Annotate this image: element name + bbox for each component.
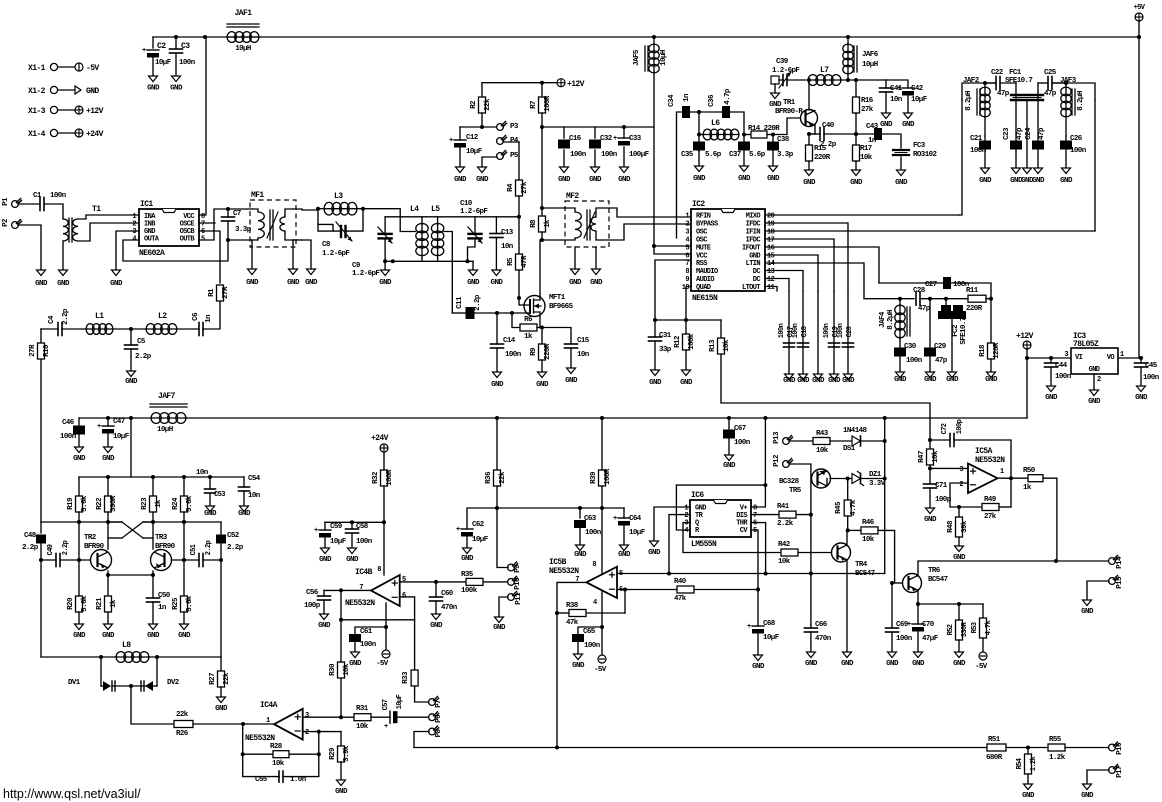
wire squelch col	[884, 418, 886, 574]
svg-text:47p: 47p	[935, 357, 948, 365]
pin P2	[12, 222, 19, 229]
svg-text:R23: R23	[141, 497, 149, 510]
wire C42 gnd	[907, 96, 909, 113]
wire L8 right	[148, 656, 221, 658]
wire L3 to tank	[363, 209, 416, 232]
svg-text:10µF: 10µF	[763, 634, 780, 642]
capacitor C20	[843, 342, 854, 344]
svg-text:100n: 100n	[1070, 147, 1087, 155]
svg-text:R8: R8	[530, 219, 538, 228]
wire minus node down	[414, 620, 416, 670]
svg-text:100n: 100n	[505, 351, 522, 359]
svg-text:39k: 39k	[961, 520, 969, 533]
svg-text:DV2: DV2	[167, 679, 180, 687]
ground IC3	[1090, 390, 1099, 396]
capacitor C6	[198, 323, 200, 336]
wire C55 loop	[243, 724, 279, 776]
svg-text:C28: C28	[913, 287, 926, 295]
wire C12 gnd	[459, 148, 461, 167]
wire R38 row	[557, 612, 569, 614]
capacitor C52	[216, 535, 226, 544]
svg-text:DZ1: DZ1	[869, 471, 882, 479]
capacitor C36	[722, 106, 730, 118]
node C47	[106, 416, 110, 420]
node V+ rail	[763, 416, 767, 420]
wire C60 gnd	[435, 601, 437, 614]
svg-text:3.3p: 3.3p	[777, 151, 794, 159]
capacitor C5	[130, 329, 132, 345]
svg-text:OSC: OSC	[696, 236, 707, 244]
svg-text:10k: 10k	[816, 447, 829, 455]
svg-text:GND: GND	[749, 252, 760, 260]
resistor R9	[541, 328, 543, 345]
svg-text:22k: 22k	[223, 672, 231, 685]
wire C62 gnd	[466, 537, 468, 548]
wire IC3 gnd	[1093, 374, 1095, 390]
node R24 fb	[182, 520, 186, 524]
wire pin16 c27 row	[879, 282, 943, 284]
svg-text:-5V: -5V	[594, 666, 607, 674]
pin P10	[508, 579, 515, 586]
svg-text:GND: GND	[349, 660, 362, 668]
svg-text:GND: GND	[1081, 792, 1094, 800]
wire R43-DS1	[830, 440, 852, 442]
node R28 right	[317, 752, 321, 756]
svg-text:8: 8	[592, 561, 596, 569]
svg-text:4: 4	[684, 527, 688, 535]
svg-text:R39: R39	[590, 471, 598, 484]
node R19 fb	[77, 520, 81, 524]
svg-text:P6: P6	[435, 714, 443, 723]
svg-text:1.2k: 1.2k	[1049, 754, 1066, 762]
ground C44	[1047, 386, 1056, 392]
wire P2 down	[18, 225, 41, 270]
svg-text:FC2: FC2	[952, 324, 960, 337]
svg-text:C56: C56	[306, 589, 319, 597]
wire +12V rail	[482, 82, 557, 84]
wire tank left down	[698, 112, 700, 152]
svg-text:27k: 27k	[861, 106, 874, 114]
svg-text:GND: GND	[461, 555, 474, 563]
ground C18	[799, 374, 808, 380]
node C56	[339, 588, 343, 592]
svg-text:14: 14	[767, 260, 775, 268]
wire R29 gnd	[340, 762, 342, 780]
svg-text:GND: GND	[379, 279, 392, 287]
power -5V IC5B	[601, 627, 603, 655]
IC IC6 LM555N	[690, 500, 751, 537]
wire emitter row	[918, 603, 983, 605]
svg-text:10µF: 10µF	[155, 59, 172, 67]
ground C31	[651, 370, 660, 376]
svg-text:GND: GND	[618, 176, 631, 184]
svg-text:2: 2	[305, 729, 309, 737]
wire MF2 out 2	[602, 224, 691, 240]
node C67 rail	[727, 416, 731, 420]
op-amp IC5B NE5532N	[586, 567, 617, 598]
wire IC2 pin20 MIXO	[765, 214, 959, 216]
resistor R7	[541, 83, 543, 97]
capacitor C42	[886, 80, 908, 88]
node plus/R30	[339, 715, 343, 719]
inductor JAF2	[984, 87, 986, 117]
svg-text:C38: C38	[777, 136, 790, 144]
svg-text:P13: P13	[773, 431, 781, 444]
svg-text:100n: 100n	[1055, 373, 1072, 381]
svg-text:R29: R29	[329, 747, 337, 760]
node R4 tank	[517, 215, 521, 219]
svg-text:20: 20	[767, 213, 775, 221]
wire IC4B out	[324, 589, 371, 591]
wire C64 gnd	[623, 526, 625, 545]
svg-text:10n: 10n	[577, 351, 590, 359]
svg-text:GND: GND	[491, 279, 504, 287]
ground FC3	[897, 170, 906, 176]
wire C34-C36	[690, 111, 722, 113]
svg-text:47k: 47k	[566, 619, 579, 627]
node R21	[106, 573, 110, 577]
wire pin13 col	[802, 291, 804, 374]
svg-text:C65: C65	[583, 628, 596, 636]
svg-text:100n: 100n	[906, 357, 923, 365]
svg-text:8.2µH: 8.2µH	[965, 91, 973, 111]
svg-text:1.2-6pF: 1.2-6pF	[460, 208, 488, 216]
node top-right corner	[1137, 35, 1141, 39]
svg-text:3: 3	[305, 712, 309, 720]
wire C71 gnd	[929, 488, 931, 508]
resistor R2	[481, 83, 483, 97]
IC IC3 78L05Z regulator	[1071, 348, 1118, 374]
svg-text:IC5B: IC5B	[549, 558, 567, 567]
resistor R53	[982, 604, 984, 618]
svg-text:10µF: 10µF	[396, 694, 404, 709]
svg-text:10µF: 10µF	[466, 148, 483, 156]
svg-text:2.2p: 2.2p	[22, 544, 39, 552]
wire C40-C43	[824, 133, 874, 135]
svg-text:27R: 27R	[29, 344, 37, 357]
wire tank bottom	[385, 260, 473, 262]
svg-text:BC547: BC547	[928, 576, 948, 584]
varactor DV2	[145, 681, 153, 691]
svg-text:C45: C45	[1145, 362, 1158, 370]
capacitor C46	[78, 418, 80, 425]
node IC5A plus	[928, 466, 932, 470]
wire R41 right	[796, 514, 811, 516]
svg-text:GND: GND	[204, 510, 217, 518]
wire C21 gnd	[984, 150, 986, 168]
svg-text:2.2p: 2.2p	[135, 353, 152, 361]
svg-text:R45: R45	[835, 501, 843, 514]
resistor R13	[720, 320, 722, 338]
svg-text:33p: 33p	[659, 346, 672, 354]
svg-text:1n: 1n	[868, 137, 877, 145]
svg-text:8: 8	[377, 566, 381, 574]
svg-text:C63: C63	[584, 515, 597, 523]
svg-text:R52: R52	[947, 624, 955, 635]
svg-text:-5V: -5V	[376, 660, 389, 668]
resistor R23	[152, 477, 154, 496]
svg-text:1n: 1n	[683, 93, 691, 102]
capacitor C45	[1140, 358, 1142, 363]
svg-text:GND: GND	[493, 624, 506, 632]
node C9 bottom	[383, 259, 387, 263]
capacitor C18	[798, 342, 809, 344]
svg-text:10k: 10k	[860, 154, 873, 162]
inductor JAF3	[1065, 87, 1067, 117]
svg-text:9: 9	[685, 276, 689, 284]
svg-text:X1-3: X1-3	[28, 107, 46, 116]
node minus5b	[623, 588, 627, 592]
wire OSC pin4 column	[677, 112, 682, 238]
svg-text:10n: 10n	[248, 492, 261, 500]
svg-text:C62: C62	[472, 521, 485, 529]
svg-text:L5: L5	[431, 205, 440, 214]
svg-text:10µF: 10µF	[911, 96, 928, 104]
capacitor C59	[324, 522, 326, 530]
wire R32 down	[383, 486, 385, 575]
svg-text:10k: 10k	[272, 760, 285, 768]
wire R42-TR4	[798, 552, 832, 554]
ground C67	[725, 455, 734, 461]
wire L8 row	[41, 656, 117, 658]
capacitor C2	[147, 49, 159, 51]
wire IC4A plus	[303, 716, 341, 718]
wire DS1 right	[861, 440, 885, 442]
wire IC6 pin1 gnd	[654, 507, 690, 541]
ground R29	[337, 780, 346, 786]
svg-text:GND: GND	[842, 377, 855, 385]
capacitor C13	[495, 217, 497, 234]
node JAF6 bottom	[846, 78, 850, 82]
wire R46 right	[878, 530, 895, 583]
svg-text:+: +	[747, 623, 751, 631]
svg-text:100k: 100k	[461, 587, 478, 595]
wire plus row	[930, 467, 968, 469]
wire C2 drop	[152, 37, 154, 48]
MF2 core	[586, 210, 588, 240]
capacitor C72	[949, 434, 951, 447]
svg-text:L7: L7	[820, 66, 829, 75]
svg-text:R16: R16	[861, 97, 874, 105]
wire IC6 V+ rail	[764, 418, 766, 485]
svg-text:-5V: -5V	[975, 663, 988, 671]
svg-text:6: 6	[685, 252, 689, 260]
wire R36 down	[496, 486, 498, 508]
svg-text:5: 5	[685, 244, 689, 252]
ground FC1	[1023, 168, 1032, 174]
svg-text:R27: R27	[209, 673, 217, 685]
svg-text:GND: GND	[895, 179, 908, 187]
svg-text:C67: C67	[734, 425, 746, 433]
svg-text:GND: GND	[953, 660, 966, 668]
wire C58 gnd	[351, 533, 353, 548]
svg-text:TR1: TR1	[783, 99, 796, 107]
svg-text:R31: R31	[356, 705, 369, 713]
svg-text:C39: C39	[776, 58, 789, 66]
wire P15 gnd	[1087, 581, 1109, 600]
svg-text:GND: GND	[1022, 792, 1035, 800]
filter MF2 dashed box	[565, 201, 609, 247]
svg-text:220R: 220R	[814, 154, 831, 162]
svg-text:120R: 120R	[993, 342, 1001, 359]
svg-text:IFIN: IFIN	[746, 228, 761, 236]
svg-text:4.7k: 4.7k	[850, 499, 858, 516]
svg-text:MUTE: MUTE	[696, 244, 711, 252]
svg-text:R4: R4	[507, 183, 515, 192]
capacitor C64	[623, 508, 625, 518]
wire R50 right	[1043, 478, 1057, 561]
node R16 top	[854, 78, 858, 82]
resistor R41	[751, 514, 779, 516]
svg-text:GND: GND	[318, 622, 331, 630]
resistor R6	[512, 313, 520, 328]
ground C63	[576, 545, 585, 551]
svg-text:1.2-6pF: 1.2-6pF	[772, 67, 800, 75]
svg-text:GND: GND	[649, 379, 662, 387]
svg-text:100R: 100R	[604, 468, 612, 485]
capacitor C58	[351, 522, 353, 529]
node P12 col tap	[809, 572, 813, 576]
capacitor C68	[752, 625, 764, 627]
resistor R22	[107, 477, 109, 496]
ground R27	[217, 697, 226, 703]
capacitor C26	[1065, 136, 1067, 140]
node P3	[480, 125, 484, 129]
node out fb	[1009, 476, 1013, 480]
resistor R21	[107, 575, 109, 596]
pin P13	[783, 438, 790, 445]
wire C57-P6	[398, 716, 429, 718]
capacitor C62	[467, 508, 497, 529]
node fb4b	[339, 618, 343, 622]
wire R2 down	[481, 113, 483, 127]
svg-text:470n: 470n	[815, 635, 832, 643]
transistor TR1 BFR90-R	[801, 110, 818, 127]
node C61 tap	[384, 625, 388, 629]
svg-text:1n: 1n	[158, 604, 167, 612]
varactor DV1	[101, 685, 103, 687]
wire IC4B vminus	[385, 603, 387, 650]
pin P15	[1109, 578, 1116, 585]
svg-text:5: 5	[402, 576, 406, 584]
svg-text:C60: C60	[441, 590, 454, 598]
svg-text:2.2p: 2.2p	[62, 540, 70, 555]
capacitor C56	[323, 590, 325, 596]
svg-text:R41: R41	[777, 503, 790, 511]
node L6 right	[742, 133, 746, 137]
node C16 rail	[540, 125, 544, 129]
wire T1 primary gnd	[62, 241, 64, 270]
node R52 top	[957, 602, 961, 606]
svg-text:100n: 100n	[778, 323, 786, 338]
wire C65 gnd	[577, 642, 579, 654]
wire R38 loop	[624, 590, 626, 614]
svg-text:P15: P15	[1116, 576, 1124, 589]
resistor R14	[744, 134, 751, 136]
svg-text:C6: C6	[192, 312, 200, 321]
wire IC2 pin13 DC	[765, 271, 803, 292]
wire IC5B minus	[617, 589, 625, 591]
wire MF2 left gnd	[574, 247, 576, 269]
ground C68	[754, 655, 763, 661]
node R39 rail	[600, 416, 604, 420]
svg-text:3.3p: 3.3p	[235, 226, 252, 234]
capacitor C9 trimmer	[384, 217, 386, 233]
ground C32	[591, 167, 600, 173]
svg-text:MIXO: MIXO	[746, 213, 761, 221]
svg-text:10µH: 10µH	[862, 61, 878, 69]
wire left column	[40, 359, 42, 533]
svg-text:BFR90-R: BFR90-R	[775, 108, 803, 116]
svg-text:100n: 100n	[792, 323, 800, 338]
svg-text:BC328: BC328	[779, 478, 800, 486]
diode DZ1 zener	[852, 474, 861, 484]
svg-text:+: +	[907, 621, 911, 629]
svg-text:100n: 100n	[823, 323, 831, 338]
svg-text:TR4: TR4	[855, 561, 868, 569]
svg-text:8.2µH: 8.2µH	[1077, 91, 1085, 111]
wire to C12/P3	[460, 126, 497, 128]
node R45 bot	[846, 528, 850, 532]
wire T1-IC1 pin2	[78, 223, 139, 241]
svg-text:R1: R1	[208, 288, 216, 297]
node TR3 coll	[151, 520, 155, 524]
svg-text:C47: C47	[113, 418, 125, 426]
wire R15 gnd	[808, 161, 810, 170]
resistor R42	[780, 552, 782, 554]
svg-text:8.2µH: 8.2µH	[887, 310, 895, 330]
node C7 top	[226, 207, 230, 211]
ground C26	[1062, 168, 1071, 174]
svg-text:2: 2	[1097, 376, 1101, 384]
svg-text:FC1: FC1	[1009, 69, 1022, 77]
node C9 jog	[391, 259, 395, 263]
node R17 top	[854, 132, 858, 136]
svg-text:C49: C49	[47, 544, 55, 555]
pin P16	[1109, 744, 1116, 751]
svg-text:IFDC: IFDC	[746, 220, 761, 228]
svg-text:R35: R35	[461, 571, 474, 579]
resistor R31	[354, 714, 371, 721]
resistor R50	[1028, 475, 1043, 482]
svg-text:C24: C24	[1025, 127, 1033, 140]
wire C30 gnd	[899, 357, 901, 372]
wire TR6 collector	[918, 561, 1109, 576]
wire R27 gnd	[220, 687, 222, 697]
wire C52 down	[220, 544, 222, 657]
svg-text:R20: R20	[67, 597, 75, 610]
svg-text:C21: C21	[970, 135, 983, 143]
resistor R26	[174, 721, 193, 728]
wire R18 gnd	[990, 359, 992, 372]
svg-text:17: 17	[767, 236, 775, 244]
capacitor C54	[243, 477, 245, 487]
node MF2 in top	[540, 206, 544, 210]
svg-text:R38: R38	[566, 602, 579, 610]
svg-text:GND: GND	[738, 175, 751, 183]
wire C41 gnd	[885, 92, 887, 113]
svg-text:R33: R33	[402, 671, 410, 684]
wire C55 right	[283, 754, 319, 776]
wire P4 to R4	[503, 141, 519, 143]
wire pin12 col	[788, 291, 790, 374]
svg-text:GND: GND	[590, 279, 603, 287]
resistor R48	[958, 507, 960, 517]
resistor R17	[855, 134, 857, 145]
svg-text:GND: GND	[841, 660, 854, 668]
node R7 top	[540, 81, 544, 85]
svg-text:C58: C58	[356, 523, 369, 531]
